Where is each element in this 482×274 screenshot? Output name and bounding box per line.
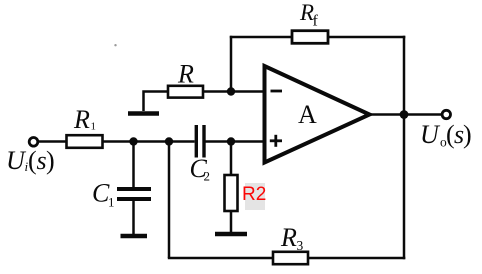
svg-text:R: R: [177, 60, 194, 89]
svg-text:A: A: [298, 100, 317, 129]
label R2 (red annotation): [245, 183, 265, 210]
wire R2 to ground: [230, 211, 233, 232]
node C (junction dot, + input): [227, 137, 235, 145]
resistor Rf: [292, 31, 328, 44]
capacitor C2: [195, 125, 198, 158]
ground (R2): [215, 232, 247, 237]
wire Rf rail left segment: [230, 36, 292, 39]
svg-text:): ): [463, 120, 472, 149]
wire R to op-amp minus input: [203, 90, 265, 93]
op-amp A: [265, 66, 370, 163]
op-amp minus sign: [271, 90, 283, 93]
wire C2 to node C: [206, 140, 265, 143]
wire node B to C2: [169, 140, 195, 143]
wire right rail down to bottom: [403, 36, 406, 259]
wire node A down to C1: [132, 142, 135, 188]
bottom rail wire R3 to right rail: [308, 257, 405, 260]
svg-text:3: 3: [297, 238, 304, 253]
op-amp plus sign: [270, 139, 282, 142]
wire R1 to node A: [103, 140, 170, 143]
node B (junction dot): [165, 137, 173, 145]
svg-text:(: (: [28, 146, 37, 175]
resistor R2: [225, 175, 238, 211]
resistor R (ground leg of inverting input): [168, 86, 203, 98]
wire C1 to ground: [132, 201, 135, 235]
wire input to R1: [37, 140, 66, 143]
svg-text:1: 1: [91, 121, 97, 133]
svg-text:1: 1: [108, 195, 115, 210]
svg-text:R: R: [280, 223, 297, 252]
wire node C down to R2: [230, 142, 233, 176]
node E (output junction dot): [400, 110, 409, 119]
resistor R3: [273, 252, 308, 264]
svg-text:2: 2: [204, 169, 211, 184]
wire op-amp output to node E: [370, 113, 442, 116]
bottom rail wire to R3: [168, 257, 273, 260]
svg-text:U: U: [420, 120, 441, 149]
capacitor C1: [117, 187, 151, 191]
output terminal: [442, 110, 450, 118]
ground (C1): [121, 234, 148, 239]
wire node B down to bottom rail: [168, 142, 171, 259]
input terminal: [29, 138, 38, 147]
wire node D up to Rf rail: [230, 36, 233, 92]
wire Rf rail right segment: [328, 36, 405, 39]
node D (junction dot, - input / feedback): [227, 87, 235, 95]
svg-text:): ): [46, 146, 55, 175]
ground (R): [128, 111, 159, 116]
node A (junction dot): [129, 137, 137, 145]
svg-text:f: f: [313, 13, 319, 30]
svg-text:R: R: [73, 105, 90, 134]
resistor R1: [67, 135, 103, 148]
wire R left to ground drop: [144, 92, 169, 112]
scan speck: [114, 44, 116, 46]
